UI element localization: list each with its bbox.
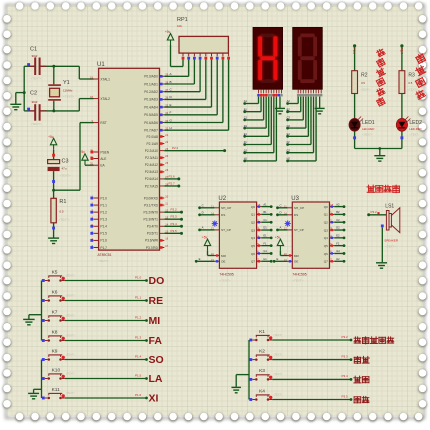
RP1 pin 5 (204, 53, 207, 60)
wire display segment F1 (270, 97, 272, 145)
svg-text:P2.6: P2.6 (169, 174, 176, 178)
LED LED1 (349, 117, 375, 137)
U2 pin Q6 (251, 250, 262, 256)
svg-text:C3: C3 (62, 159, 69, 165)
svg-text:P3.4: P3.4 (171, 222, 178, 226)
7-segment display DISP2 body (293, 27, 323, 89)
svg-text:LED1: LED1 (362, 120, 375, 126)
svg-text:Q6: Q6 (251, 252, 255, 256)
svg-text:Q1: Q1 (251, 213, 255, 217)
wire K11 to net P1.6 (65, 397, 147, 399)
display DISP2 pin squares (297, 94, 322, 97)
svg-text:P1.3: P1.3 (100, 218, 107, 222)
svg-text:Q5: Q5 (251, 244, 255, 248)
svg-text:0.5: 0.5 (59, 210, 64, 214)
svg-text:E: E (199, 257, 201, 261)
svg-text:A2: A2 (287, 99, 291, 103)
switch K7 push button (42, 309, 75, 322)
wire net P3.4 stub (164, 225, 181, 227)
svg-text:SH_CP: SH_CP (221, 206, 231, 210)
svg-text:<TEXT>: <TEXT> (362, 133, 373, 137)
wire display segment E1 (268, 97, 270, 137)
U3 pin Q3 (324, 226, 335, 232)
svg-text:(TEXT): (TEXT) (66, 352, 74, 356)
svg-text:SPEAKER: SPEAKER (384, 239, 398, 243)
svg-text:P2.2/A10: P2.2/A10 (145, 149, 158, 153)
svg-text:AT89C51: AT89C51 (98, 253, 112, 257)
svg-text:RP1: RP1 (177, 17, 188, 23)
U1 pin P0.7 (32) (144, 127, 168, 133)
switch K9 push button (42, 348, 75, 361)
wire net P2.2 (164, 150, 224, 152)
svg-text:P0.3/AD3: P0.3/AD3 (144, 98, 158, 102)
U2 pin Q3 (251, 226, 262, 232)
U3 pin SH_CP (11) (284, 204, 304, 210)
svg-text:<TEXT>: <TEXT> (219, 279, 230, 283)
svg-text:K3: K3 (259, 368, 265, 374)
+5V power (EA) (80, 150, 89, 165)
wire K9 to net P1.4 (65, 359, 147, 361)
wire R1 to ground (53, 223, 55, 238)
svg-text:12MHz: 12MHz (63, 89, 73, 93)
wire U2 DS input (200, 214, 215, 216)
svg-text:LED-RED: LED-RED (409, 127, 421, 131)
wire bus1 ground tap (29, 314, 42, 316)
U1 pin P0.3 (36) (144, 96, 168, 102)
svg-text:D1: D1 (263, 226, 267, 230)
svg-text:OE: OE (294, 260, 298, 264)
svg-text:<TEXT>: <TEXT> (407, 88, 418, 92)
svg-text:(TEXT): (TEXT) (66, 273, 74, 277)
svg-text:DS: DS (294, 213, 298, 217)
wire K5 to net P1.0 (65, 280, 147, 282)
svg-text:(TEXT): (TEXT) (274, 372, 282, 376)
U2 pin ST_CP (12) (211, 226, 231, 232)
svg-text:+5v: +5v (202, 236, 208, 240)
svg-text:G2: G2 (287, 148, 291, 152)
svg-text:R1: R1 (59, 199, 66, 205)
U2 pin Q2 (251, 218, 262, 224)
wire crystal top link (53, 66, 55, 84)
wire left ground bus vertical (23, 66, 25, 111)
svg-text:FA: FA (149, 335, 163, 347)
wire U2 Q1 net B1 (261, 213, 271, 215)
svg-text:Q1: Q1 (324, 213, 328, 217)
switch K6 push button (42, 289, 75, 302)
7-segment display DISP1 body (253, 27, 283, 89)
node ground tap junction (23, 91, 26, 94)
svg-text:A1: A1 (244, 99, 248, 103)
shift register U3 74HC595 body (292, 202, 329, 268)
svg-text:Q7: Q7 (251, 260, 255, 264)
svg-text:A2: A2 (336, 202, 340, 206)
wire net P2.6 (164, 178, 179, 180)
node U2 ST_CP marker (212, 221, 218, 227)
resistor R3 (399, 71, 418, 94)
U1 pin P1.2 (3) (90, 209, 107, 215)
U2 pin Q7 (251, 257, 262, 263)
svg-text:P2.2: P2.2 (172, 146, 179, 150)
U1 pin P2.3 (24) (145, 154, 169, 160)
svg-text:P0.6/AD6: P0.6/AD6 (144, 121, 158, 125)
wire +5v to C3 (53, 150, 55, 160)
display DISP2 pins (298, 89, 321, 93)
crystal Y1 12MHz (48, 80, 74, 100)
svg-text:10k: 10k (177, 24, 182, 28)
ground GND7 (keys1) (23, 319, 35, 324)
svg-text:Q7: Q7 (324, 260, 328, 264)
svg-text:K7: K7 (52, 309, 58, 315)
svg-text:K4: K4 (259, 388, 265, 394)
svg-text:P0.4/AD4: P0.4/AD4 (144, 105, 158, 109)
switch K2 push button (249, 348, 282, 361)
U1 pin P3.0 (10) (144, 194, 169, 200)
U1 pin P2.1 (22) (147, 140, 169, 146)
U3 pin DS (14) (284, 211, 298, 217)
wire P2.6 net to R2 (353, 44, 356, 47)
U1 pin P1.1 (2) (90, 202, 107, 208)
svg-text:K10: K10 (52, 367, 61, 373)
U1 pin P3.6 (16) (145, 237, 169, 243)
svg-text:E2: E2 (336, 234, 340, 238)
ground GND9 (function keys) (231, 387, 241, 392)
wire U3 Q2 net C2 (334, 221, 344, 223)
label Chinese: treble (354, 397, 361, 403)
svg-text:(TEXT): (TEXT) (66, 371, 74, 375)
wire crystal bottom link (53, 101, 55, 111)
svg-text:C1: C1 (263, 218, 267, 222)
svg-text:(TEXT): (TEXT) (274, 392, 282, 396)
node RST junction (52, 189, 55, 192)
U1 pin P1.7 (8) (90, 244, 107, 250)
wire U2 OE input (196, 260, 214, 262)
svg-text:E1: E1 (263, 234, 267, 238)
svg-text:LED-RED: LED-RED (362, 127, 374, 131)
svg-text:Y1: Y1 (63, 80, 70, 86)
wire LED1 cathode (354, 131, 356, 148)
svg-text:DS: DS (221, 213, 225, 217)
svg-text:D2: D2 (287, 124, 291, 128)
svg-text:Q6: Q6 (324, 252, 328, 256)
wire function-keys bus (248, 340, 250, 400)
svg-text:R3: R3 (408, 73, 415, 79)
U3 pin Q2 (324, 218, 335, 224)
svg-text:RST: RST (100, 121, 106, 125)
U3 pin MR (10) (284, 252, 300, 258)
svg-text:K6: K6 (52, 289, 58, 295)
wire speaker to ground (381, 225, 384, 228)
U3 pin Q4 (324, 234, 335, 240)
svg-text:F: F (170, 111, 172, 115)
svg-text:ALE: ALE (100, 157, 106, 161)
wire display segment D2 (305, 97, 307, 129)
svg-text:H1: H1 (263, 257, 267, 261)
svg-text:<TEXT>: <TEXT> (292, 279, 303, 283)
wire RST net (54, 189, 80, 191)
svg-text:E: E (277, 257, 279, 261)
svg-text:ST_CP: ST_CP (294, 228, 304, 232)
U1 pin XTAL1 (19) (90, 76, 110, 82)
svg-text:MR: MR (294, 254, 300, 258)
display DISP1 pin squares (257, 94, 282, 97)
U2 pin SH_CP (11) (211, 204, 231, 210)
svg-text:0.5: 0.5 (361, 81, 365, 85)
wire U3 DS input (278, 214, 288, 216)
capacitor C3 electrolytic (48, 159, 71, 178)
wire U3 Q5 net F2 (334, 245, 344, 247)
wire ground tap left (16, 92, 24, 94)
wire P3.7 net to speaker (367, 213, 370, 216)
label Chinese: mid (354, 376, 361, 383)
U1 pin P1.3 (4) (90, 216, 107, 222)
svg-text:P3.1/TXD: P3.1/TXD (144, 203, 159, 207)
ground GND8 (keys2) (28, 393, 39, 398)
wire U3 OE input (274, 260, 287, 262)
U1 pin P1.0 (1) (90, 195, 107, 201)
RP1 pin 3 (193, 53, 196, 60)
svg-text:P3.5: P3.5 (342, 394, 349, 398)
shift register U2 74HC595 body (219, 202, 256, 268)
wire net P2.7 (164, 185, 179, 187)
switch K10 push button (42, 367, 75, 380)
wire U2 Q3 net D1 (261, 229, 271, 231)
svg-text:OE: OE (221, 260, 225, 264)
U3 pin ST_CP (12) (284, 226, 304, 232)
svg-text:P2.7: P2.7 (399, 48, 403, 55)
wire K3 to net P3.4 (272, 378, 351, 380)
svg-text:<TEXT>: <TEXT> (63, 95, 74, 99)
wire display segment B2 (300, 97, 302, 112)
+5V power (U2 MR) (202, 236, 211, 251)
svg-text:D: D (280, 211, 282, 215)
wire display segment D1 (265, 97, 267, 129)
wire U3 Q1 net B2 (334, 213, 344, 215)
U1 pin P1.6 (7) (90, 237, 107, 243)
svg-text:P3.2: P3.2 (342, 335, 349, 339)
U1 pin P0.0 (39) (144, 73, 168, 79)
U1 pin PSEN (29) (90, 149, 110, 155)
ground GND1 (crystal) (10, 104, 21, 109)
svg-text:Q3: Q3 (251, 228, 255, 232)
wire XTAL2 (78, 99, 80, 111)
resistor pack RP1 body (179, 36, 228, 53)
U1 pin P3.7 (17) (146, 244, 169, 250)
svg-text:+5v: +5v (80, 150, 86, 154)
ground GND6 (speaker) (376, 263, 387, 268)
wire U2 ST_CP input (200, 229, 215, 231)
wire EA (85, 164, 94, 166)
U2 pin Q1 (251, 211, 262, 217)
svg-text:LS1: LS1 (385, 204, 394, 210)
wire K1 to net P3.2 (272, 339, 351, 341)
U2 pin Q4 (251, 234, 262, 240)
wire R2 to LED1 (354, 94, 356, 120)
svg-text:B2: B2 (287, 107, 291, 111)
capacitor C1 (29, 47, 47, 81)
wire P0.1 to RP1 pin 3 (164, 83, 194, 85)
svg-text:C1: C1 (244, 116, 248, 120)
svg-text:<TEXT>: <TEXT> (60, 174, 71, 178)
svg-text:H2: H2 (287, 157, 291, 161)
display DISP1 pins (259, 89, 282, 93)
svg-text:XTAL1: XTAL1 (100, 77, 110, 81)
wire U2 Q5 net F1 (261, 245, 271, 247)
svg-text:LA: LA (149, 373, 163, 385)
svg-text:B1: B1 (263, 210, 267, 214)
wire display segment H1 (275, 97, 277, 161)
capacitor C2 (29, 91, 47, 127)
wire U3 MR to +5V (279, 251, 281, 256)
svg-text:B1: B1 (244, 107, 248, 111)
svg-text:C1: C1 (30, 47, 37, 53)
svg-text:P1.0: P1.0 (100, 196, 107, 200)
svg-text:H2: H2 (336, 257, 340, 261)
U1 pin EA (31) (90, 162, 105, 168)
svg-text:MR: MR (221, 254, 227, 258)
wire U2 Q7 net H1 (261, 260, 271, 262)
switch K11 push button (42, 387, 75, 400)
svg-text:(TEXT): (TEXT) (66, 313, 74, 317)
svg-text:LED2: LED2 (409, 120, 422, 126)
svg-text:H1: H1 (244, 157, 248, 161)
svg-text:P0.5/AD5: P0.5/AD5 (144, 113, 158, 117)
svg-text:K1: K1 (259, 329, 265, 335)
svg-text:P2.5/A13: P2.5/A13 (145, 170, 158, 174)
svg-text:P1.4: P1.4 (100, 225, 107, 229)
U1 pin P2.4 (25) (145, 161, 169, 167)
svg-text:P1.1: P1.1 (100, 203, 107, 207)
U1 pin P2.5 (26) (145, 168, 169, 174)
wire net P3.2 stub (164, 211, 181, 213)
svg-text:E1: E1 (244, 132, 248, 136)
svg-text:DO: DO (149, 275, 165, 287)
svg-text:P2.6: P2.6 (352, 48, 356, 55)
U1 pin P3.4 (14) (147, 223, 169, 229)
svg-text:74HC595: 74HC595 (219, 273, 233, 277)
svg-text:30pf: 30pf (32, 100, 38, 104)
wire P0.3 to RP1 pin 5 (164, 98, 206, 100)
svg-text:C: C (280, 204, 282, 208)
wire U2 Q2 net C1 (261, 221, 271, 223)
wire RP1 common to +5V (182, 60, 184, 67)
U1 pin XTAL2 (18) (90, 95, 110, 101)
svg-text:74HC595: 74HC595 (292, 273, 306, 277)
ground GND3 (display1) (275, 108, 285, 113)
svg-text:R2: R2 (361, 73, 368, 79)
wire P2.7 net to R3 (400, 44, 403, 47)
switch K1 push button (249, 329, 282, 342)
switch K5 push button (42, 269, 75, 282)
wire function-keys ground tap (236, 374, 249, 376)
switch K3 push button (249, 368, 282, 381)
svg-text:P2.1/A9: P2.1/A9 (147, 142, 159, 146)
svg-text:P1.3: P1.3 (135, 335, 142, 339)
RP1 pin 8 (222, 53, 225, 60)
svg-text:K11: K11 (52, 387, 61, 393)
wire U2 Q4 net E1 (261, 237, 271, 239)
svg-text:U3: U3 (291, 196, 299, 202)
svg-text:K9: K9 (52, 348, 58, 354)
svg-text:U2: U2 (218, 196, 226, 202)
svg-text:A1: A1 (263, 202, 267, 206)
+5V power (RP1) (165, 30, 174, 45)
svg-text:P1.6: P1.6 (100, 239, 107, 243)
wire U2 MR to +5V (207, 251, 209, 256)
label Chinese: function switch key (354, 337, 361, 343)
svg-text:Q3: Q3 (324, 228, 328, 232)
svg-text:D2: D2 (336, 226, 340, 230)
svg-text:P1.5: P1.5 (135, 373, 142, 377)
svg-text:K8: K8 (52, 329, 58, 335)
label Chinese: external mode (vertical) (415, 53, 426, 64)
svg-text:P2.0/A8: P2.0/A8 (147, 135, 159, 139)
svg-text:+5v: +5v (48, 135, 54, 139)
svg-text:P0.1/AD1: P0.1/AD1 (144, 82, 158, 86)
RP1 pin 1 (182, 53, 185, 60)
wire C1 row (24, 65, 34, 67)
U2 pin Q5 (251, 242, 262, 248)
wire K6 to net P1.1 (65, 300, 147, 302)
svg-text:U1: U1 (97, 62, 105, 68)
U1 pin P0.4 (35) (144, 103, 168, 109)
ground GND2 (reset) (48, 238, 59, 243)
resistor R1 (51, 198, 70, 223)
svg-text:XI: XI (149, 393, 159, 405)
svg-text:P2.3/A11: P2.3/A11 (145, 156, 158, 160)
wire R3 to LED2 (401, 94, 403, 120)
U3 pin OE (13) (284, 258, 299, 264)
wire P0.6 to RP1 pin 8 (164, 122, 223, 124)
svg-text:Q0: Q0 (251, 205, 255, 209)
svg-text:P1.7: P1.7 (100, 246, 107, 250)
wire display segment G2 (313, 97, 315, 153)
svg-text:P2.7/A15: P2.7/A15 (145, 184, 158, 188)
wire LED common ground rail (355, 148, 402, 150)
svg-text:MI: MI (149, 315, 161, 327)
svg-text:P2.4/A12: P2.4/A12 (145, 163, 158, 167)
RP1 pin 6 (210, 53, 213, 60)
U1 pin P1.5 (6) (90, 230, 107, 236)
U1 pin P2.2 (23) (145, 147, 169, 153)
wire U3 ST_CP input (278, 229, 288, 231)
wire U3 SH_CP input (278, 207, 288, 209)
wire display common to ground (279, 97, 281, 108)
wire P0.5 to RP1 pin 7 (164, 114, 217, 116)
LED LED2 (396, 117, 422, 137)
U2 pin OE (13) (211, 258, 226, 264)
U1 pin P2.0 (21) (147, 133, 169, 139)
svg-text:P3.4/T0: P3.4/T0 (147, 225, 158, 229)
RP1 pin 7 (216, 53, 219, 60)
svg-text:<TEXT>: <TEXT> (409, 133, 420, 137)
wire K4 to net P3.5 (272, 399, 351, 401)
svg-text:P0.0/AD0: P0.0/AD0 (144, 75, 158, 79)
node U3 ST_CP marker (285, 221, 291, 227)
svg-text:SH_CP: SH_CP (294, 206, 304, 210)
svg-text:<TEXT>: <TEXT> (59, 218, 70, 222)
label Chinese: play music (367, 185, 375, 192)
wire display segment A1 (258, 97, 260, 104)
svg-text:D1: D1 (244, 124, 248, 128)
RP1 pin 2 (187, 53, 190, 60)
svg-text:A: A (202, 226, 204, 230)
U1 pin P3.2 (12) (144, 208, 169, 214)
wire display segment A2 (297, 97, 299, 104)
svg-text:(TEXT): (TEXT) (66, 333, 74, 337)
svg-text:B: B (170, 80, 172, 84)
wire U3 Q6 net G2 (334, 252, 344, 254)
svg-text:P3.2: P3.2 (171, 208, 178, 212)
